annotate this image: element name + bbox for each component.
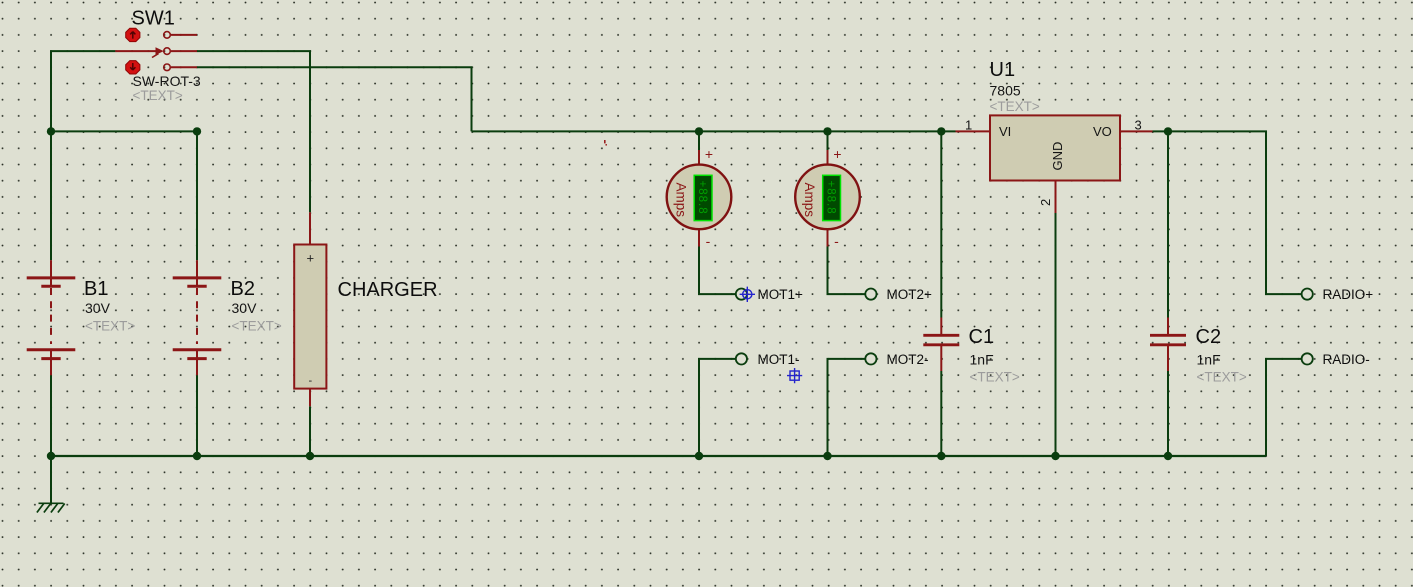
label B2 value 30V: [232, 300, 258, 316]
charger CHARGER: [294, 212, 326, 406]
wire battery top rail B1 to B2: [51, 130, 197, 132]
junction node B2 rail: [193, 127, 201, 135]
wire ammeter AM1 top: [698, 131, 700, 150]
wire ammeter AM1 bottom to MOT1+: [699, 247, 736, 295]
svg-text:RADIO+: RADIO+: [1323, 287, 1374, 302]
svg-text:2: 2: [1038, 199, 1053, 206]
label B1 placeholder text: [85, 319, 135, 334]
label B1 reference: [84, 278, 108, 300]
wire top bus to U1 VI: [472, 130, 956, 132]
svg-text:VO: VO: [1093, 124, 1112, 139]
wire B2 bottom to ground bus: [196, 375, 198, 456]
svg-text:30V: 30V: [232, 300, 258, 316]
label U1 pin name GND: [1050, 142, 1065, 171]
svg-text:GND: GND: [1050, 142, 1065, 171]
junction node B1 ground: [47, 452, 55, 460]
svg-text:CHARGER: CHARGER: [338, 279, 438, 301]
label U1 pin name VO: [1093, 124, 1112, 139]
junction node MOT1- ground: [695, 452, 703, 460]
label U1 pin number 1: [965, 118, 972, 133]
battery B1: [27, 260, 76, 375]
label AM1 plus polarity: [705, 146, 713, 162]
origin marker on MOT1+: [740, 287, 755, 302]
svg-text:<TEXT>: <TEXT>: [232, 319, 282, 334]
svg-text:+: +: [307, 251, 315, 266]
svg-text:MOT2+: MOT2+: [887, 287, 933, 302]
switch SW1 down actuator: [126, 61, 140, 74]
wire C1 bottom: [940, 371, 942, 456]
wire B1 top pin: [50, 131, 52, 260]
wire ground bus: [51, 455, 1266, 457]
svg-text:U1: U1: [990, 59, 1016, 81]
wire CHARGER bottom to ground bus: [309, 406, 311, 456]
svg-text:-: -: [834, 233, 839, 249]
wire ground stub below bus: [50, 456, 52, 503]
origin marker free: [787, 368, 802, 383]
svg-text:30V: 30V: [85, 300, 111, 316]
label AM1 minus polarity: [706, 233, 711, 249]
svg-text:1: 1: [965, 118, 972, 133]
svg-text:MOT1-: MOT1-: [758, 352, 800, 367]
ammeter AM2: [795, 150, 860, 247]
junction node C2 VO bus: [1164, 127, 1172, 135]
junction node AM1 top bus: [695, 127, 703, 135]
wire MOT2- to ground bus: [828, 359, 866, 456]
regulator U1 7805: [956, 115, 1153, 213]
terminal MOT2+: [865, 289, 876, 300]
terminal MOT2-: [865, 353, 876, 364]
ammeter AM1: [667, 150, 732, 247]
terminal RADIO-: [1302, 353, 1313, 364]
label C2 value 1nF: [1197, 352, 1221, 368]
label U1 placeholder text: [990, 99, 1040, 114]
svg-text:3: 3: [1135, 118, 1142, 133]
wire ammeter AM2 bottom to MOT2+: [828, 247, 866, 295]
label C1 placeholder text: [970, 370, 1020, 385]
label SW1 reference: [132, 8, 175, 30]
label U1 reference: [990, 59, 1016, 81]
capacitor C2: [1150, 318, 1186, 372]
label U1 pin number 2: [1038, 199, 1053, 206]
svg-text:<TEXT>: <TEXT>: [990, 99, 1040, 114]
wire U1 VO to RADIO+: [1153, 131, 1302, 294]
svg-text:Amps: Amps: [802, 183, 817, 218]
label C2 placeholder text: [1197, 370, 1247, 385]
junction node MOT2- ground: [823, 452, 831, 460]
label U1 pin name VI: [999, 124, 1011, 139]
wire SW1 bottom output to top bus: [197, 67, 472, 131]
svg-text:7805: 7805: [990, 83, 1021, 99]
wire from SW1 common left to B1 top rail: [51, 51, 115, 131]
svg-text:-: -: [706, 233, 711, 249]
wire ammeter AM2 top: [827, 131, 829, 150]
switch SW1 up actuator: [126, 28, 140, 41]
svg-text:VI: VI: [999, 124, 1011, 139]
wire C2 top: [1167, 131, 1169, 317]
stray mark: [604, 140, 607, 146]
junction node U1 GND ground: [1051, 452, 1059, 460]
switch SW1: [115, 32, 197, 71]
svg-text:<TEXT>: <TEXT>: [1197, 370, 1247, 385]
battery B2: [173, 260, 222, 375]
wire RADIO- to ground bus: [1266, 359, 1302, 456]
svg-text:<TEXT>: <TEXT>: [970, 370, 1020, 385]
ground: [37, 503, 65, 512]
wire B2 top pin: [196, 131, 198, 260]
label AM2 minus polarity: [834, 233, 839, 249]
terminal RADIO+: [1302, 289, 1313, 300]
svg-text:MOT1+: MOT1+: [758, 287, 804, 302]
svg-text:RADIO-: RADIO-: [1323, 352, 1370, 367]
label terminal MOT1+: [758, 287, 804, 302]
svg-text:Amps: Amps: [674, 183, 689, 218]
junction node C2 ground: [1164, 452, 1172, 460]
svg-text:SW-ROT-3: SW-ROT-3: [133, 73, 201, 89]
svg-text:<TEXT>: <TEXT>: [133, 88, 183, 103]
capacitor C1: [923, 318, 959, 372]
junction node B1/SW rail: [47, 127, 55, 135]
wire C2 bottom: [1167, 371, 1169, 456]
svg-text:+: +: [833, 146, 841, 162]
wire U1 GND pin to ground bus: [1055, 213, 1057, 456]
junction node CHARGER ground: [306, 452, 314, 460]
svg-text:1nF: 1nF: [970, 352, 994, 368]
wire C1 top: [940, 131, 942, 317]
label terminal RADIO-: [1323, 352, 1370, 367]
junction node B2 ground: [193, 452, 201, 460]
svg-text:+: +: [705, 146, 713, 162]
junction node C1 ground: [937, 452, 945, 460]
svg-text:C2: C2: [1196, 326, 1222, 348]
label C1 value 1nF: [970, 352, 994, 368]
svg-text:+88.8: +88.8: [696, 181, 708, 215]
wire SW1 middle output to CHARGER top: [197, 51, 310, 212]
svg-text:+88.8: +88.8: [825, 181, 837, 215]
svg-text:B2: B2: [231, 278, 255, 300]
terminal MOT1+: [736, 289, 747, 300]
label terminal MOT1-: [758, 352, 800, 367]
svg-text:SW1: SW1: [132, 8, 175, 30]
label U1 value 7805: [990, 83, 1021, 99]
label terminal RADIO+: [1323, 287, 1374, 302]
junction node AM2 top bus: [823, 127, 831, 135]
label C2 reference: [1196, 326, 1222, 348]
label AM2 plus polarity: [833, 146, 841, 162]
label B1 value 30V: [85, 300, 111, 316]
label U1 pin number 3: [1135, 118, 1142, 133]
label B2 reference: [231, 278, 255, 300]
wire B1 bottom to ground bus: [50, 375, 52, 456]
label CHARGER reference: [338, 279, 438, 301]
svg-text:1nF: 1nF: [1197, 352, 1221, 368]
junction node C1 top bus: [937, 127, 945, 135]
svg-text:<TEXT>: <TEXT>: [85, 319, 135, 334]
svg-text:-: -: [308, 375, 312, 387]
label SW1 value SW-ROT-3: [133, 73, 201, 89]
svg-text:MOT2-: MOT2-: [887, 352, 929, 367]
svg-text:B1: B1: [84, 278, 108, 300]
label terminal MOT2+: [887, 287, 933, 302]
label SW1 placeholder text: [133, 88, 183, 103]
label C1 reference: [969, 326, 995, 348]
label B2 placeholder text: [232, 319, 282, 334]
label terminal MOT2-: [887, 352, 929, 367]
svg-text:C1: C1: [969, 326, 995, 348]
terminal MOT1-: [736, 353, 747, 364]
wire MOT1- to ground bus: [699, 359, 736, 456]
